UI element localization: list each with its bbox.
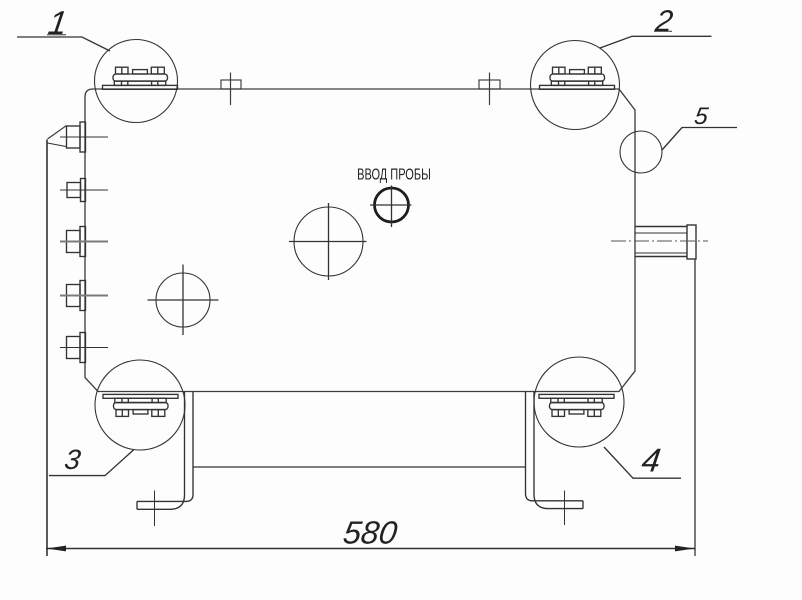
latch detail top-right (in circle 2)	[540, 67, 615, 89]
bolt fitting B4	[60, 281, 108, 311]
bolt fitting B5	[60, 333, 108, 363]
support leg left	[137, 392, 193, 526]
support leg right	[526, 392, 584, 525]
svg-text:580: 580	[341, 515, 400, 551]
svg-text:ВВОД ПРОБЫ: ВВОД ПРОБЫ	[357, 166, 431, 183]
top tab T1	[221, 73, 241, 106]
svg-text:4: 4	[639, 443, 663, 480]
port hole A with centerlines	[148, 265, 219, 336]
dimension extension line right	[694, 259, 696, 556]
leader line 5	[662, 128, 737, 151]
cross member between legs	[193, 466, 526, 468]
enclosure body outline	[85, 89, 635, 392]
leader line 1	[17, 35, 110, 51]
pipe nozzle on right	[611, 225, 708, 259]
port hole B with centerlines	[289, 203, 367, 280]
bolt fitting B2	[60, 179, 108, 202]
dimension extension line left	[46, 140, 48, 557]
bolt fitting B1	[48, 122, 109, 152]
latch detail bottom-left (in circle 3)	[103, 394, 178, 416]
detail circle 1	[95, 40, 178, 123]
bolt fitting B3	[60, 227, 108, 257]
detail circle 4	[534, 357, 624, 447]
top tab T2	[479, 73, 500, 106]
detail circle 2	[531, 41, 620, 130]
detail circle 3	[95, 360, 185, 450]
svg-text:3: 3	[63, 444, 83, 475]
latch detail top-left (in circle 1)	[103, 67, 178, 89]
sample inlet port (VVOD PROBY)	[370, 186, 412, 228]
dimension line 580	[46, 546, 695, 552]
leader line 4	[604, 447, 681, 478]
latch detail bottom-right (in circle 4)	[539, 394, 614, 416]
svg-text:5: 5	[693, 103, 711, 130]
leader line 3	[49, 450, 134, 476]
svg-text:2: 2	[653, 5, 676, 38]
leader line 2	[600, 31, 712, 48]
detail circle 5	[620, 131, 662, 173]
